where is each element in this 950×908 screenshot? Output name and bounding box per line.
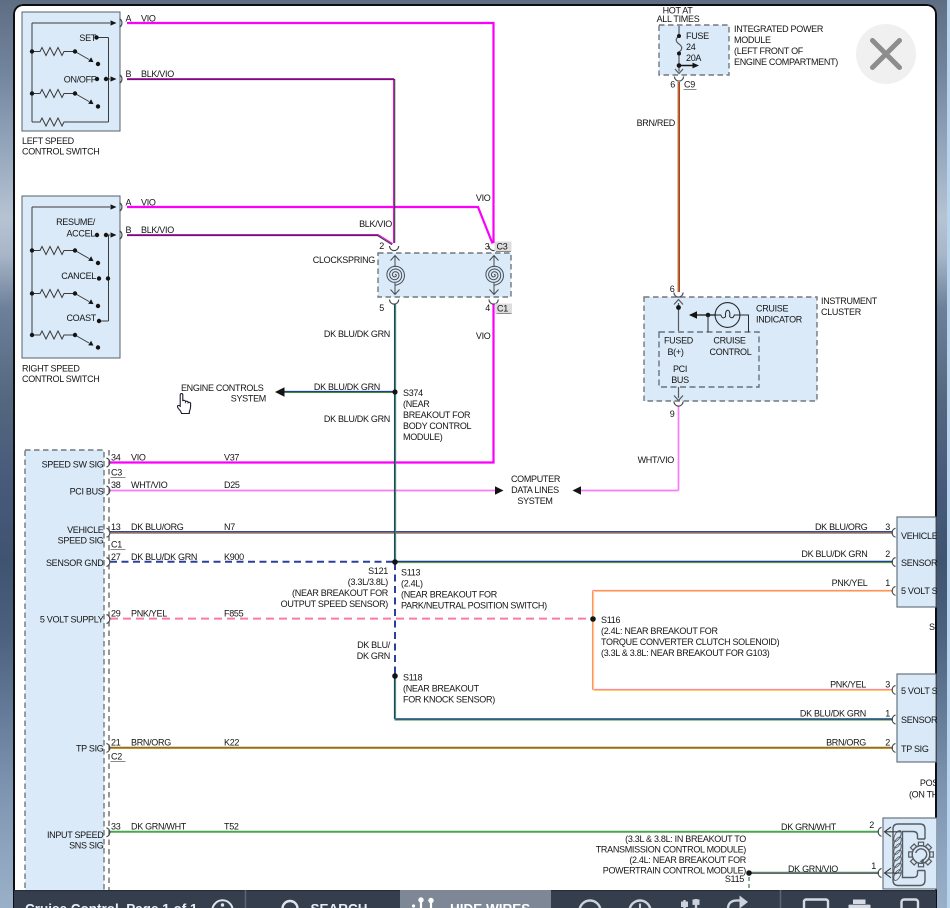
svg-text:(NEAR BREAKOUT: (NEAR BREAKOUT bbox=[403, 684, 480, 694]
svg-text:DK BLU/DK GRN: DK BLU/DK GRN bbox=[314, 382, 380, 392]
svg-text:T52: T52 bbox=[224, 822, 239, 832]
svg-text:5: 5 bbox=[379, 303, 384, 313]
svg-text:24: 24 bbox=[686, 42, 696, 52]
svg-text:INTEGRATED POWER: INTEGRATED POWER bbox=[734, 24, 824, 34]
svg-text:DK BLU/DK GRN: DK BLU/DK GRN bbox=[131, 552, 197, 562]
svg-text:SENSOR GND: SENSOR GND bbox=[901, 558, 937, 568]
svg-text:DK BLU/: DK BLU/ bbox=[357, 640, 391, 650]
svg-text:9: 9 bbox=[670, 409, 675, 419]
svg-text:34: 34 bbox=[111, 453, 121, 463]
svg-text:6: 6 bbox=[670, 284, 675, 294]
svg-text:(3.3L & 3.8L: IN BREAKOUT TO: (3.3L & 3.8L: IN BREAKOUT TO bbox=[625, 834, 746, 844]
svg-text:INDICATOR: INDICATOR bbox=[756, 315, 803, 325]
svg-text:BODY CONTROL: BODY CONTROL bbox=[403, 421, 472, 431]
svg-text:(ON TH: (ON TH bbox=[909, 790, 937, 800]
svg-text:S113: S113 bbox=[401, 568, 420, 578]
svg-text:INPUT SPEED: INPUT SPEED bbox=[47, 830, 104, 840]
svg-text:SPEED SW SIG: SPEED SW SIG bbox=[42, 460, 104, 470]
svg-text:29: 29 bbox=[111, 609, 121, 619]
svg-text:38: 38 bbox=[111, 480, 121, 490]
svg-text:4: 4 bbox=[485, 303, 490, 313]
svg-text:5 VOLT SUPPLY: 5 VOLT SUPPLY bbox=[901, 686, 937, 696]
svg-text:5 VOLT SUPPLY: 5 VOLT SUPPLY bbox=[40, 615, 104, 625]
svg-text:S121: S121 bbox=[368, 566, 388, 576]
svg-text:(3.3L/3.8L): (3.3L/3.8L) bbox=[348, 577, 389, 587]
svg-text:2: 2 bbox=[885, 738, 890, 748]
svg-text:C3: C3 bbox=[111, 468, 122, 478]
svg-text:(2.4L: NEAR BREAKOUT FOR: (2.4L: NEAR BREAKOUT FOR bbox=[601, 626, 718, 636]
svg-text:F855: F855 bbox=[224, 609, 244, 619]
svg-text:PNK/YEL: PNK/YEL bbox=[832, 578, 868, 588]
svg-text:V37: V37 bbox=[224, 453, 239, 463]
svg-text:PNK/YEL: PNK/YEL bbox=[830, 680, 866, 690]
svg-text:VEHICLE SPEED SIG: VEHICLE SPEED SIG bbox=[901, 531, 937, 541]
svg-text:33: 33 bbox=[111, 822, 121, 832]
svg-text:BRN/RED: BRN/RED bbox=[637, 118, 676, 128]
svg-text:BLK/VIO: BLK/VIO bbox=[359, 219, 392, 229]
svg-text:CONTROL SWITCH: CONTROL SWITCH bbox=[22, 374, 99, 384]
svg-text:CONTROL: CONTROL bbox=[710, 347, 752, 357]
svg-text:(NEAR BREAKOUT FOR: (NEAR BREAKOUT FOR bbox=[401, 590, 498, 600]
svg-text:OUTPUT SPEED SENSOR): OUTPUT SPEED SENSOR) bbox=[281, 599, 389, 609]
svg-text:POS: POS bbox=[920, 778, 937, 788]
svg-text:VIO: VIO bbox=[131, 453, 146, 463]
svg-text:13: 13 bbox=[111, 522, 121, 532]
svg-text:SEARCH: SEARCH bbox=[311, 902, 368, 908]
svg-text:1: 1 bbox=[871, 861, 876, 871]
svg-text:S118: S118 bbox=[403, 673, 422, 683]
svg-text:(NEAR: (NEAR bbox=[403, 399, 430, 409]
svg-text:BLK/VIO: BLK/VIO bbox=[141, 225, 174, 235]
svg-text:S115: S115 bbox=[725, 874, 744, 884]
svg-text:TORQUE CONVERTER CLUTCH SOLENO: TORQUE CONVERTER CLUTCH SOLENOID) bbox=[601, 637, 780, 647]
svg-text:VIO: VIO bbox=[141, 198, 156, 208]
svg-text:BUS: BUS bbox=[671, 375, 689, 385]
svg-text:ALL TIMES: ALL TIMES bbox=[657, 14, 700, 24]
svg-text:20A: 20A bbox=[686, 53, 701, 63]
svg-text:A: A bbox=[126, 198, 132, 208]
svg-text:DATA LINES: DATA LINES bbox=[511, 485, 559, 495]
svg-text:CLUSTER: CLUSTER bbox=[821, 307, 862, 317]
svg-text:DK BLU/ORG: DK BLU/ORG bbox=[815, 522, 868, 532]
svg-text:CLOCKSPRING: CLOCKSPRING bbox=[313, 255, 376, 265]
svg-text:DK BLU/DK GRN: DK BLU/DK GRN bbox=[324, 329, 390, 339]
svg-text:C2: C2 bbox=[111, 752, 122, 762]
svg-text:FUSED: FUSED bbox=[664, 336, 694, 346]
svg-text:SYSTEM: SYSTEM bbox=[517, 496, 552, 506]
svg-text:5 VOLT SUPPLY: 5 VOLT SUPPLY bbox=[901, 586, 937, 596]
svg-text:C9: C9 bbox=[684, 80, 695, 90]
svg-text:(2.4L): (2.4L) bbox=[401, 579, 423, 589]
svg-text:ENGINE COMPARTMENT): ENGINE COMPARTMENT) bbox=[734, 57, 838, 67]
svg-text:B(+): B(+) bbox=[667, 347, 683, 357]
svg-text:A: A bbox=[126, 14, 132, 24]
svg-text:RIGHT SPEED: RIGHT SPEED bbox=[22, 364, 80, 374]
svg-text:SYSTEM: SYSTEM bbox=[231, 394, 266, 404]
svg-text:K900: K900 bbox=[224, 552, 244, 562]
svg-text:(LEFT FRONT OF: (LEFT FRONT OF bbox=[734, 46, 804, 56]
svg-text:C1: C1 bbox=[111, 540, 122, 550]
svg-text:D25: D25 bbox=[224, 480, 240, 490]
svg-text:27: 27 bbox=[111, 552, 121, 562]
svg-text:FOR KNOCK SENSOR): FOR KNOCK SENSOR) bbox=[403, 695, 495, 705]
svg-text:COAST: COAST bbox=[66, 313, 96, 323]
svg-text:B: B bbox=[126, 225, 132, 235]
svg-text:C1: C1 bbox=[497, 304, 508, 314]
svg-text:ON/OFF: ON/OFF bbox=[64, 75, 97, 85]
svg-text:DK GRN/WHT: DK GRN/WHT bbox=[781, 822, 837, 832]
svg-text:DK GRN/WHT: DK GRN/WHT bbox=[131, 822, 187, 832]
svg-text:21: 21 bbox=[111, 738, 121, 748]
svg-text:(2.4L: NEAR BREAKOUT FOR: (2.4L: NEAR BREAKOUT FOR bbox=[629, 855, 746, 865]
svg-text:VIO: VIO bbox=[476, 331, 491, 341]
svg-text:VEHICLE: VEHICLE bbox=[67, 525, 104, 535]
svg-text:INSTRUMENT: INSTRUMENT bbox=[821, 296, 878, 306]
svg-text:S116: S116 bbox=[601, 615, 620, 625]
svg-text:K22: K22 bbox=[224, 738, 239, 748]
svg-text:MODULE): MODULE) bbox=[403, 432, 443, 442]
svg-text:N7: N7 bbox=[224, 522, 235, 532]
svg-text:(3.3L & 3.8L: NEAR BREAKOUT FO: (3.3L & 3.8L: NEAR BREAKOUT FOR G103) bbox=[601, 648, 770, 658]
svg-text:VIO: VIO bbox=[141, 14, 156, 24]
svg-text:SENSOR GND: SENSOR GND bbox=[46, 558, 104, 568]
svg-text:DK GRN: DK GRN bbox=[357, 651, 390, 661]
svg-text:B: B bbox=[126, 69, 132, 79]
svg-text:6: 6 bbox=[670, 80, 675, 90]
svg-text:BRN/ORG: BRN/ORG bbox=[826, 738, 866, 748]
svg-text:LEFT SPEED: LEFT SPEED bbox=[22, 136, 75, 146]
svg-text:SET: SET bbox=[79, 33, 96, 43]
svg-text:CONTROL SWITCH: CONTROL SWITCH bbox=[22, 147, 99, 157]
svg-text:RESUME/: RESUME/ bbox=[56, 217, 96, 227]
svg-text:PARK/NEUTRAL POSITION SWITCH): PARK/NEUTRAL POSITION SWITCH) bbox=[401, 601, 547, 611]
svg-text:DK BLU/ORG: DK BLU/ORG bbox=[131, 522, 184, 532]
svg-text:DK BLU/DK GRN: DK BLU/DK GRN bbox=[800, 709, 866, 719]
svg-text:MODULE: MODULE bbox=[734, 35, 771, 45]
svg-text:S: S bbox=[929, 622, 935, 632]
svg-text:VIO: VIO bbox=[476, 193, 491, 203]
svg-text:PNK/YEL: PNK/YEL bbox=[131, 609, 167, 619]
svg-text:COMPUTER: COMPUTER bbox=[511, 474, 561, 484]
svg-text:Cruise Control, Page 1 of 1: Cruise Control, Page 1 of 1 bbox=[25, 902, 198, 908]
svg-text:1: 1 bbox=[885, 709, 890, 719]
svg-text:CANCEL: CANCEL bbox=[61, 271, 96, 281]
svg-text:BLK/VIO: BLK/VIO bbox=[141, 69, 174, 79]
svg-text:TRANSMISSION CONTROL MODULE): TRANSMISSION CONTROL MODULE) bbox=[596, 845, 747, 855]
svg-text:ACCEL: ACCEL bbox=[66, 229, 95, 239]
svg-text:CRUISE: CRUISE bbox=[713, 336, 746, 346]
svg-text:SENSOR GND: SENSOR GND bbox=[901, 715, 937, 725]
svg-text:DK BLU/DK GRN: DK BLU/DK GRN bbox=[324, 414, 390, 424]
svg-text:2: 2 bbox=[885, 549, 890, 559]
svg-text:S374: S374 bbox=[403, 388, 423, 398]
svg-text:3: 3 bbox=[485, 242, 490, 252]
svg-text:PCI: PCI bbox=[673, 364, 687, 374]
svg-text:SPEED SIG: SPEED SIG bbox=[58, 536, 104, 546]
svg-text:2: 2 bbox=[869, 820, 874, 830]
svg-text:HIDE WIRES: HIDE WIRES bbox=[450, 902, 530, 908]
svg-text:WHT/VIO: WHT/VIO bbox=[131, 480, 168, 490]
svg-text:FUSE: FUSE bbox=[686, 31, 709, 41]
svg-text:TP SIG: TP SIG bbox=[76, 744, 104, 754]
svg-text:WHT/VIO: WHT/VIO bbox=[638, 455, 675, 465]
svg-text:TP SIG: TP SIG bbox=[901, 744, 929, 754]
svg-text:(NEAR BREAKOUT FOR: (NEAR BREAKOUT FOR bbox=[292, 588, 389, 598]
svg-text:BRN/ORG: BRN/ORG bbox=[131, 738, 171, 748]
svg-text:SNS SIG: SNS SIG bbox=[69, 841, 104, 851]
svg-text:3: 3 bbox=[885, 522, 890, 532]
svg-text:1: 1 bbox=[885, 578, 890, 588]
svg-text:CRUISE: CRUISE bbox=[756, 304, 789, 314]
svg-text:C3: C3 bbox=[497, 242, 508, 252]
svg-text:2: 2 bbox=[379, 241, 384, 251]
svg-text:BREAKOUT FOR: BREAKOUT FOR bbox=[403, 410, 471, 420]
svg-text:PCI BUS: PCI BUS bbox=[70, 487, 104, 497]
svg-text:ENGINE CONTROLS: ENGINE CONTROLS bbox=[181, 383, 264, 393]
svg-text:3: 3 bbox=[885, 680, 890, 690]
svg-text:DK BLU/DK GRN: DK BLU/DK GRN bbox=[801, 549, 867, 559]
svg-text:DK GRN/VIO: DK GRN/VIO bbox=[788, 864, 838, 874]
